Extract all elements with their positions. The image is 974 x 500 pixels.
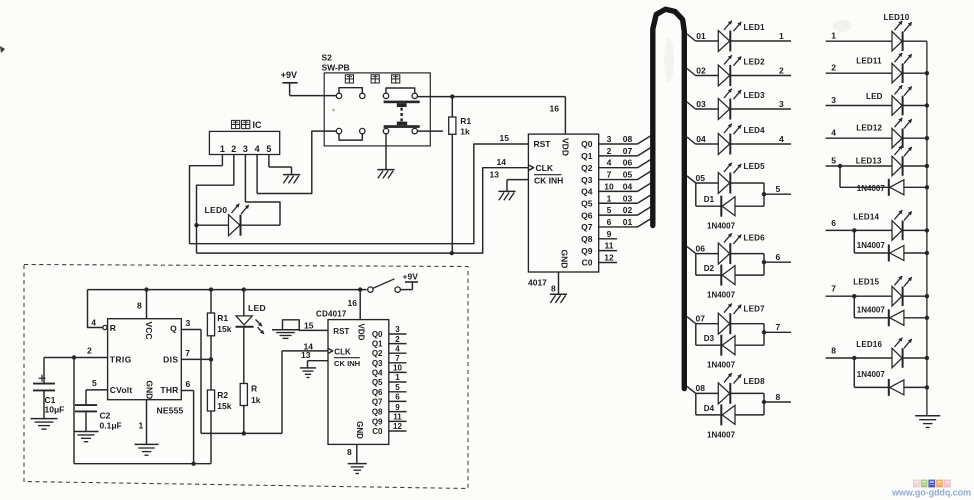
LED LED8 xyxy=(696,373,764,404)
node bus junction row 5 xyxy=(925,164,929,168)
wire pin 8 to ground xyxy=(558,272,560,294)
label LED0 xyxy=(205,205,228,215)
output pin names U3 xyxy=(372,330,383,436)
svg-text:3: 3 xyxy=(831,95,836,105)
wire 555 output to CD4017 clock xyxy=(201,351,328,434)
wire input 7 right column xyxy=(826,284,892,297)
svg-text:1N4007: 1N4007 xyxy=(857,370,886,379)
LED LED3 xyxy=(696,89,792,120)
node output junction 7 xyxy=(762,330,766,334)
pin name Q xyxy=(170,324,177,334)
svg-text:Q2: Q2 xyxy=(581,163,593,173)
output pin names Q0-Q9 C0 xyxy=(581,139,593,268)
label LED1 xyxy=(744,23,766,32)
resistor R 1k in dashed box xyxy=(240,384,247,434)
svg-text:C0: C0 xyxy=(372,427,383,436)
counter IC U3 CD4017 body xyxy=(328,320,389,445)
label D2 xyxy=(704,264,715,273)
pin label 8 xyxy=(551,284,556,294)
svg-text:LED4: LED4 xyxy=(744,126,766,135)
clock input triangle xyxy=(528,165,533,171)
bus tap 06 xyxy=(687,243,705,253)
svg-text:3: 3 xyxy=(779,99,784,109)
svg-text:16: 16 xyxy=(550,104,560,114)
svg-text:6: 6 xyxy=(186,379,191,389)
switch S2 contact pair top-right with pushbutton bar xyxy=(383,88,419,107)
node wire label 1 xyxy=(779,31,784,41)
node LED branch top xyxy=(242,287,246,291)
LED LED5 xyxy=(696,163,764,194)
svg-text:D2: D2 xyxy=(704,264,715,273)
svg-text:4: 4 xyxy=(395,344,400,353)
node bus junction row 3 xyxy=(925,103,929,107)
label LED in dashed box xyxy=(248,303,266,313)
diode D2 1N4007 anti-parallel xyxy=(696,254,764,286)
svg-text:Q2: Q2 xyxy=(372,349,383,358)
clock triangle U3 xyxy=(328,348,333,353)
pin label 13 xyxy=(490,170,500,180)
pin 8 GND stem U3 xyxy=(347,444,357,463)
label 1N4007 row 5 xyxy=(857,184,886,193)
ground at RST U3 xyxy=(272,330,299,339)
svg-text:7: 7 xyxy=(395,354,400,363)
svg-text:6: 6 xyxy=(831,218,836,228)
svg-text:R1: R1 xyxy=(460,116,471,126)
svg-text:5: 5 xyxy=(266,144,271,154)
label D1 xyxy=(704,195,715,204)
pin 1 GND stem of NE555 xyxy=(139,400,147,444)
label LED7 xyxy=(744,305,766,314)
svg-text:1: 1 xyxy=(220,144,225,154)
svg-text:06: 06 xyxy=(623,158,633,168)
pin name CVolt xyxy=(110,385,133,395)
svg-text:11: 11 xyxy=(393,413,402,422)
svg-text:GND: GND xyxy=(560,250,570,269)
ground below switch S2 xyxy=(377,170,394,179)
node wire label 4 xyxy=(779,134,784,144)
node bus junction row 7 xyxy=(925,294,929,298)
label 1N4007 for D3 xyxy=(707,361,736,370)
label NE555 xyxy=(157,405,184,415)
label C2 xyxy=(100,410,111,420)
pin name DIS xyxy=(163,355,178,365)
wire Q pin 3 down xyxy=(181,318,201,433)
svg-text:1N4007: 1N4007 xyxy=(707,361,736,370)
svg-text:Q8: Q8 xyxy=(372,408,383,417)
wire Q0 pin 3 to bus tap 08 xyxy=(599,134,653,144)
svg-text:C2: C2 xyxy=(100,410,111,420)
svg-text:Q4: Q4 xyxy=(372,368,383,377)
wire pin 1 to RST line xyxy=(190,166,223,244)
stub C0 pin 12 of U3 xyxy=(389,422,407,431)
wire Q7 pin 6 to bus tap 01 xyxy=(599,217,653,227)
scan smudge near bus arch xyxy=(664,38,674,82)
wire input 1 right column xyxy=(826,31,892,42)
svg-text:04: 04 xyxy=(696,134,706,144)
wire VDD rail down to pin 16 of 4017 xyxy=(564,97,566,135)
LED LED14 xyxy=(892,210,927,240)
pin 5 stub xyxy=(268,155,270,168)
stub Q5 pin 1 of U3 xyxy=(389,373,407,382)
label D4 xyxy=(704,404,715,413)
svg-text:Q7: Q7 xyxy=(372,397,383,406)
svg-text:Q9: Q9 xyxy=(581,246,593,256)
svg-text:10: 10 xyxy=(604,181,614,191)
svg-text:7: 7 xyxy=(185,348,190,358)
stub Q8 pin 9 of U3 xyxy=(389,403,407,412)
svg-text:5: 5 xyxy=(395,383,400,392)
wire CK INH U3 to ground xyxy=(301,350,328,368)
svg-text:+9V: +9V xyxy=(281,70,297,80)
LED LED0 xyxy=(197,204,281,236)
svg-text:LED2: LED2 xyxy=(744,58,766,67)
pin label 14 U3 xyxy=(304,341,314,351)
svg-text:4: 4 xyxy=(607,158,612,168)
label 1N4007 for D2 xyxy=(707,291,736,300)
node output junction 6 xyxy=(762,260,766,264)
svg-text:+9V: +9V xyxy=(403,271,419,281)
svg-text:4017: 4017 xyxy=(528,278,547,288)
label 1N4007 row 6 xyxy=(857,241,886,250)
svg-text:9: 9 xyxy=(395,403,400,412)
svg-text:RST: RST xyxy=(534,139,552,149)
svg-text:1: 1 xyxy=(779,31,784,41)
node output junction 5 xyxy=(762,192,766,196)
svg-text:LED5: LED5 xyxy=(744,162,766,171)
svg-text:4: 4 xyxy=(831,128,836,138)
resistor R2 15k xyxy=(207,359,214,463)
bus tap 05 xyxy=(687,173,705,183)
switch S2 contact pair bottom-left xyxy=(336,128,365,140)
svg-text:LED8: LED8 xyxy=(744,377,766,386)
svg-text:1N4007: 1N4007 xyxy=(857,241,886,250)
label LED6 xyxy=(744,234,766,243)
pin name RST U3 xyxy=(333,327,349,336)
svg-text:15: 15 xyxy=(500,133,510,143)
label 10uF xyxy=(45,404,65,414)
capacitor C2 0.1uF xyxy=(75,390,97,431)
svg-text:01: 01 xyxy=(696,31,706,41)
ground at C1 xyxy=(31,419,58,430)
LED LED2 xyxy=(696,55,792,86)
pin 3 stub xyxy=(244,155,246,203)
svg-text:4: 4 xyxy=(779,134,784,144)
pin label 14 xyxy=(497,157,507,167)
scan smudge near LED10 xyxy=(833,20,851,32)
pin name CLK xyxy=(536,163,554,173)
wire Q5 pin 1 to bus tap 03 xyxy=(599,193,653,203)
svg-text:Q0: Q0 xyxy=(581,139,593,149)
svg-text:IC: IC xyxy=(253,120,263,130)
svg-text:08: 08 xyxy=(696,383,706,393)
svg-text:Q3: Q3 xyxy=(372,359,383,368)
svg-text:1N4007: 1N4007 xyxy=(857,184,886,193)
svg-text:CK INH: CK INH xyxy=(334,359,360,368)
wire LED0 cathode to pin 3 xyxy=(245,202,280,225)
svg-text:12: 12 xyxy=(604,253,614,263)
diode 1N4007 anti-parallel row 8 xyxy=(852,356,929,396)
svg-text:NE555: NE555 xyxy=(157,405,184,415)
svg-text:2: 2 xyxy=(607,146,612,156)
label LED2 xyxy=(744,58,766,67)
svg-text:6: 6 xyxy=(776,252,781,262)
wire TRIG pin 2 xyxy=(44,345,108,357)
node DIS junction xyxy=(209,357,213,361)
stub Q0 pin 3 of U3 xyxy=(389,325,407,334)
node output junction 8 xyxy=(762,400,766,404)
node R1 top junction xyxy=(450,94,454,98)
label LED10 xyxy=(884,13,910,22)
svg-text:2: 2 xyxy=(87,345,92,355)
svg-text:LED6: LED6 xyxy=(744,234,766,243)
pin name THR xyxy=(160,385,178,395)
svg-text:Q6: Q6 xyxy=(372,388,383,397)
label 1N4007 for D1 xyxy=(707,222,736,231)
svg-text:15k: 15k xyxy=(217,401,231,411)
label LED11 xyxy=(856,57,882,66)
wire input 2 right column xyxy=(826,63,892,74)
svg-text:7: 7 xyxy=(831,284,836,294)
ground at U3 pin 8 xyxy=(348,464,367,474)
wire output 7 xyxy=(764,322,791,332)
bus right column xyxy=(926,41,928,415)
watermark site logo xyxy=(913,480,951,488)
switch S2 box xyxy=(324,73,430,146)
node bus junction row 6 xyxy=(925,228,929,232)
stub Q9 pin 11 of U3 xyxy=(389,413,407,422)
svg-text:5: 5 xyxy=(92,378,97,388)
svg-text:01: 01 xyxy=(623,217,633,227)
pin name GND rotated xyxy=(560,250,570,269)
label CD4017 xyxy=(316,309,347,318)
LED LED1 xyxy=(696,21,792,52)
svg-text:LED16: LED16 xyxy=(856,340,882,349)
label LED13 xyxy=(856,156,882,165)
svg-text:9: 9 xyxy=(607,229,612,239)
bus cable hairpin xyxy=(653,9,685,388)
svg-text:LED: LED xyxy=(866,92,883,101)
label LED14 xyxy=(853,212,879,221)
pin name RST xyxy=(534,139,552,149)
wire Q3 pin 7 to bus tap 05 xyxy=(599,170,653,180)
svg-text:15k: 15k xyxy=(217,324,231,334)
svg-text:Q6: Q6 xyxy=(581,210,593,220)
wire input 5 right column xyxy=(826,156,892,167)
LED LED xyxy=(892,85,927,115)
node R1 bottom on CLK line xyxy=(450,251,454,255)
svg-text:Q5: Q5 xyxy=(372,378,383,387)
bus tap 04 xyxy=(687,134,706,144)
svg-text:LED0: LED0 xyxy=(205,205,228,215)
svg-text:13: 13 xyxy=(490,170,500,180)
svg-text:8: 8 xyxy=(551,284,556,294)
svg-text:1N4007: 1N4007 xyxy=(707,291,736,300)
svg-text:Q0: Q0 xyxy=(372,330,383,339)
wire pin 4 to switch bottom-left xyxy=(257,131,336,193)
svg-text:5: 5 xyxy=(831,156,836,166)
label 1N4007 for D4 xyxy=(707,430,736,439)
bus tap 01 xyxy=(687,31,706,41)
dashed enclosure of oscillator module xyxy=(24,265,468,489)
pin name VDD rotated xyxy=(561,138,571,156)
pin name GND rotated U3 xyxy=(355,421,364,439)
LED LED7 xyxy=(696,303,764,334)
ground at U2 pin 8 xyxy=(550,294,567,303)
svg-text:6: 6 xyxy=(395,393,400,402)
resistor R1 1k xyxy=(449,97,456,253)
svg-text:7: 7 xyxy=(607,170,612,180)
pin 4 reset with bubble xyxy=(91,318,107,330)
svg-text:CD4017: CD4017 xyxy=(316,309,347,318)
ground at NE555 pin 1 xyxy=(135,444,159,455)
svg-text:R: R xyxy=(251,383,257,393)
counter IC U2 4017 body xyxy=(528,134,598,272)
switch S2 contact pair bottom-right with pushbutton bar xyxy=(383,122,419,134)
svg-text:CLK: CLK xyxy=(334,347,351,356)
svg-text:16: 16 xyxy=(348,298,358,308)
svg-text:Q1: Q1 xyxy=(372,340,383,349)
wire stub from switch bottom-right to R1 xyxy=(418,130,444,132)
svg-text:3: 3 xyxy=(607,134,612,144)
label +9V dashed box xyxy=(403,271,419,281)
label 1N4007 row 8 xyxy=(857,370,886,379)
wire input 4 right column xyxy=(826,128,892,139)
svg-text:LED13: LED13 xyxy=(856,156,882,165)
svg-text:LED12: LED12 xyxy=(856,124,882,133)
svg-text:2: 2 xyxy=(231,144,236,154)
wire DIS pin 7 xyxy=(181,348,211,360)
svg-text:Q: Q xyxy=(170,324,177,334)
svg-text:04: 04 xyxy=(623,181,633,191)
ground at CK INH U3 xyxy=(300,368,316,378)
svg-text:1k: 1k xyxy=(460,126,470,136)
ground at CK INH xyxy=(498,191,515,200)
wire Q2 pin 4 to bus tap 06 xyxy=(599,158,653,168)
label R1 xyxy=(460,116,471,126)
svg-text:10μF: 10μF xyxy=(45,404,65,414)
label C1 xyxy=(45,395,56,405)
svg-text:4: 4 xyxy=(91,318,96,328)
wire output 6 xyxy=(764,252,791,262)
node wire label 3 xyxy=(779,99,784,109)
svg-text:08: 08 xyxy=(623,134,633,144)
wire THR pin 6 down xyxy=(181,379,193,464)
resistor R1 15k in dashed box xyxy=(207,290,214,360)
svg-text:CLK: CLK xyxy=(536,163,554,173)
svg-text:15: 15 xyxy=(304,320,314,330)
svg-text:R1: R1 xyxy=(217,313,228,323)
svg-text:D4: D4 xyxy=(704,404,715,413)
label 1k xyxy=(460,126,470,136)
bus tap 02 xyxy=(687,65,706,75)
pin name VCC rotated xyxy=(144,322,154,340)
svg-text:07: 07 xyxy=(623,146,633,156)
LED LED11 xyxy=(892,53,927,83)
svg-text:Q4: Q4 xyxy=(581,187,593,197)
svg-text:LED: LED xyxy=(248,303,266,313)
stub Q2 pin 4 of U3 xyxy=(389,344,407,353)
pin 1 stub xyxy=(221,155,223,166)
bus tap 03 xyxy=(687,99,706,109)
power switch to +9V in dashed box xyxy=(368,279,418,293)
LED LED15 xyxy=(892,276,927,306)
LED LED16 xyxy=(892,338,927,368)
svg-text:8: 8 xyxy=(347,447,352,457)
stub Q9 pin 11 xyxy=(599,241,617,251)
svg-text:3: 3 xyxy=(395,325,400,334)
label 4017 xyxy=(528,278,547,288)
scan smudge in switch box xyxy=(332,109,335,112)
node bus junction row 8 xyxy=(925,356,929,360)
label D3 xyxy=(704,334,715,343)
LED LED6 xyxy=(696,233,764,264)
svg-text:LED3: LED3 xyxy=(744,91,766,100)
wire input 3 right column xyxy=(826,95,892,106)
LED in dashed box xyxy=(236,290,265,384)
ground at C2 xyxy=(74,432,99,442)
svg-text:1: 1 xyxy=(831,31,836,41)
pin name GND rotated xyxy=(145,380,155,399)
svg-text:5: 5 xyxy=(776,184,781,194)
label 0.1uF xyxy=(100,421,122,431)
svg-text:05: 05 xyxy=(696,173,706,183)
svg-text:8: 8 xyxy=(137,300,142,310)
svg-text:LED14: LED14 xyxy=(853,212,879,221)
label LED16 xyxy=(856,340,882,349)
label off 关 xyxy=(392,75,400,83)
pin 4 stub xyxy=(256,155,258,194)
wire pin 5 to ground xyxy=(269,167,292,174)
wire input 8 right column xyxy=(826,346,892,359)
svg-text:LED7: LED7 xyxy=(744,305,766,314)
stub Q6 pin 5 of U3 xyxy=(389,383,407,392)
power +9V terminal (top left) xyxy=(281,70,298,95)
svg-text:5: 5 xyxy=(607,205,612,215)
svg-text:Q9: Q9 xyxy=(372,417,383,426)
node bus junction row 4 xyxy=(925,136,929,140)
node R bottom on clock line xyxy=(242,431,246,435)
watermark url xyxy=(891,488,971,498)
diode 1N4007 anti-parallel row 7 xyxy=(852,294,929,326)
pin name CK INH U3 with overbar xyxy=(334,358,360,368)
wire output 5 xyxy=(764,184,791,194)
svg-text:GND: GND xyxy=(145,380,155,399)
label 1N4007 row 7 xyxy=(857,306,886,315)
svg-text:LED11: LED11 xyxy=(856,57,882,66)
svg-text:GND: GND xyxy=(355,421,364,439)
label slow 慢 xyxy=(345,75,353,83)
switch S2 contact pair top-left xyxy=(336,88,365,99)
wire CK INH to ground xyxy=(507,180,528,192)
svg-text:6: 6 xyxy=(607,217,612,227)
svg-text:D3: D3 xyxy=(704,334,715,343)
VCC rail in dashed box xyxy=(88,290,367,328)
music chip 软封IC body xyxy=(209,131,279,154)
stub C0 pin 12 xyxy=(599,253,617,263)
wire output 8 xyxy=(764,392,791,402)
ground right column xyxy=(915,416,940,428)
svg-text:02: 02 xyxy=(696,65,706,75)
diode 1N4007 anti-parallel row 5 xyxy=(838,164,929,196)
svg-text:C1: C1 xyxy=(45,395,56,405)
wire RST line: pin1 net to RST of 4017 xyxy=(190,144,529,244)
label LED xyxy=(866,92,883,101)
pin name CLK U3 xyxy=(334,347,351,356)
label R1 15k xyxy=(217,313,231,334)
svg-text:LED10: LED10 xyxy=(884,13,910,22)
svg-text:1N4007: 1N4007 xyxy=(707,222,736,231)
pin name R xyxy=(110,323,116,333)
